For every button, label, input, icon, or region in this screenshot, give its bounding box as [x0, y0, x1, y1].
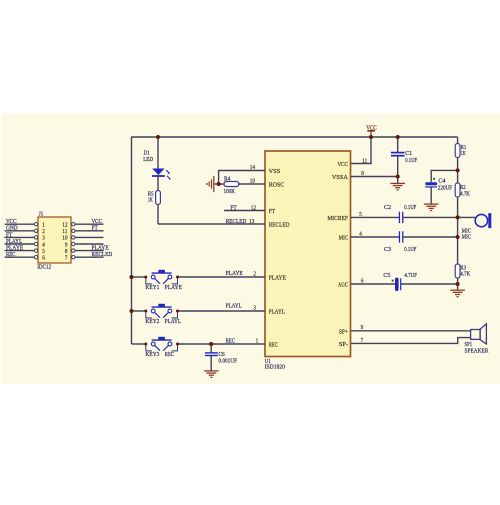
svg-text:1K: 1K [148, 197, 153, 203]
svg-text:R1: R1 [461, 145, 467, 151]
junction VCC on rail [369, 135, 373, 139]
ground under C1 [390, 183, 405, 189]
wire FT stub pin 12 [224, 210, 265, 212]
wire J1 pin 11 right [75, 230, 104, 232]
svg-text:SP-: SP- [339, 341, 348, 348]
svg-text:5: 5 [42, 249, 45, 255]
svg-text:RECLED: RECLED [92, 251, 113, 258]
pushbutton KEY2 [146, 304, 178, 318]
svg-text:12: 12 [62, 223, 67, 229]
wire node to R2 [457, 170, 459, 183]
wire VSS pin 14 to R4 node [219, 171, 265, 185]
svg-text:4: 4 [42, 242, 45, 248]
wire R3 to ground node [457, 278, 459, 290]
svg-text:PLAYE: PLAYE [226, 270, 243, 277]
wire ground to R4 [214, 183, 224, 185]
wire left vertical bus [131, 137, 133, 345]
wire KEY1 to PLAYE pin 2 [178, 276, 266, 278]
wire to KEY3 left [132, 343, 146, 345]
LED D1 [152, 169, 171, 180]
junction bus KEY1 [130, 275, 134, 279]
svg-text:PLAYL: PLAYL [226, 303, 242, 310]
terminal KEY1 right [176, 276, 179, 279]
pin 7 circle [72, 256, 75, 259]
pin 1 circle [34, 223, 37, 226]
svg-text:AGC: AGC [338, 282, 348, 289]
svg-text:MIC: MIC [339, 235, 348, 242]
svg-text:ISD1820: ISD1820 [265, 364, 285, 371]
wire C4 to ground [430, 187, 432, 203]
svg-text:C1: C1 [405, 150, 412, 157]
pin 4 circle [34, 242, 37, 245]
svg-text:PLAYL: PLAYL [165, 318, 181, 325]
svg-text:1: 1 [42, 223, 45, 229]
wire top rail to LED anode [157, 137, 159, 169]
wire LED cathode to R5 [157, 177, 159, 191]
wire J1 pin 6 left [5, 256, 35, 258]
svg-text:ROSC: ROSC [269, 181, 285, 188]
junction C1 on rail [396, 135, 400, 139]
wire J1 pin 3 left [5, 236, 35, 238]
svg-text:LED: LED [143, 156, 153, 163]
speaker SP1 [471, 324, 487, 344]
wire REC row to C6 [210, 344, 212, 352]
wire J1 pin 8 right [75, 250, 104, 252]
wire J1 pin 4 left [5, 243, 35, 245]
svg-text:8: 8 [65, 249, 68, 255]
wire MICREF pin 5 to C2 [351, 216, 400, 218]
svg-text:10: 10 [62, 236, 67, 242]
wire VSSA pin 8 to ground node [351, 176, 398, 178]
wire J1 pin 1 left [5, 223, 35, 225]
wire C5 to ground node [401, 283, 458, 285]
svg-text:4.7UF: 4.7UF [404, 272, 417, 279]
wire RECLED to pin 13 [158, 223, 265, 225]
svg-text:9: 9 [65, 242, 68, 248]
wire rail to R1 [457, 137, 459, 144]
svg-text:MIC: MIC [462, 233, 471, 240]
wire to KEY1 left [132, 276, 146, 278]
svg-text:VCC: VCC [338, 161, 349, 168]
wire J1 pin 2 left [5, 230, 35, 232]
terminal KEY3 right [176, 343, 179, 346]
svg-text:REC: REC [226, 337, 235, 344]
connector J1 IDC12 [38, 217, 71, 263]
pushbutton KEY3 [146, 337, 178, 351]
junction C6 on REC [209, 342, 213, 346]
capacitor C4 electrolytic [425, 178, 437, 187]
pin 6 circle [34, 256, 37, 259]
resistor R1 [455, 144, 460, 158]
svg-text:MICREF: MICREF [327, 215, 348, 222]
svg-text:1K: 1K [461, 151, 466, 157]
pin 10 circle [72, 236, 75, 239]
svg-text:100K: 100K [224, 188, 236, 195]
junction VSSA C1 ground [396, 175, 400, 179]
resistor R5 [156, 191, 161, 205]
svg-text:REC: REC [6, 251, 15, 258]
svg-text:KEY2: KEY2 [145, 318, 159, 325]
capacitor C1 [391, 153, 405, 156]
pushbutton KEY1 [146, 270, 178, 284]
svg-text:REC: REC [269, 341, 278, 348]
svg-text:PLAYE: PLAYE [269, 274, 286, 281]
svg-text:IDC12: IDC12 [37, 264, 51, 271]
svg-text:REC: REC [165, 351, 174, 358]
wire node to C4 [431, 170, 457, 182]
svg-text:SP+: SP+ [339, 328, 348, 335]
capacitor C6 [205, 353, 218, 356]
wire J1 pin 12 right [75, 223, 104, 225]
capacitor C3 [399, 231, 402, 242]
junction AGC R3 ground [456, 282, 460, 286]
pin 3 circle [34, 236, 37, 239]
IC U1 ISD1820 [265, 151, 351, 357]
terminal KEY2 right [176, 310, 179, 313]
resistor R4 [224, 182, 239, 187]
wire VCC top rail [132, 136, 458, 138]
junction bus KEY2 [130, 309, 134, 313]
microphone MIC [475, 213, 491, 228]
wire J1 pin 9 right [75, 243, 104, 245]
svg-text:KEY1: KEY1 [145, 284, 159, 291]
ground under R3 [450, 290, 465, 296]
svg-text:0.001UF: 0.001UF [219, 358, 238, 365]
svg-text:FT: FT [230, 204, 237, 211]
svg-text:PLAYL: PLAYL [269, 308, 285, 315]
pin 9 circle [72, 242, 75, 245]
svg-text:SPEAKER: SPEAKER [465, 348, 489, 355]
wire SP+ pin 9 to speaker [351, 330, 471, 332]
svg-text:RECLED: RECLED [226, 218, 247, 225]
svg-text:VSSA: VSSA [332, 174, 349, 181]
svg-text:KEY3: KEY3 [145, 351, 159, 358]
svg-text:0.1UF: 0.1UF [405, 157, 417, 164]
wire J1 pin 10 right [75, 236, 104, 238]
wire SP- pin 7 to speaker [351, 338, 471, 344]
wire J1 pin 5 left [5, 250, 35, 252]
pin 11 circle [72, 229, 75, 232]
wire KEY2 to PLAYL pin 3 [178, 310, 266, 312]
pin 12 circle [72, 223, 75, 226]
svg-text:FT: FT [269, 208, 276, 215]
power ground at R4 [207, 176, 214, 192]
wire mic node down to R3 [457, 217, 459, 264]
svg-text:PLAYE: PLAYE [165, 284, 182, 291]
wire C1 to ground [397, 156, 399, 183]
terminal KEY2 left [144, 310, 147, 313]
svg-text:C3: C3 [384, 246, 391, 253]
svg-text:J1: J1 [39, 210, 44, 217]
svg-text:0.1UF: 0.1UF [404, 246, 416, 253]
wire R1 to node [457, 158, 459, 171]
capacitor C5 electrolytic [392, 278, 401, 291]
wire KEY3 to REC pin 1 [178, 343, 266, 345]
svg-text:3: 3 [42, 236, 45, 242]
terminal KEY3 left [144, 343, 147, 346]
ground under C4 [424, 204, 439, 210]
capacitor C2 [399, 212, 402, 223]
svg-text:C2: C2 [384, 204, 391, 211]
wire C2 to microphone [403, 216, 476, 218]
resistor R3 [455, 264, 460, 278]
svg-text:R2: R2 [460, 185, 466, 191]
svg-text:4.7K: 4.7K [460, 191, 470, 197]
wire R4 to ROSC pin 10 [239, 183, 265, 185]
svg-text:RECLED: RECLED [269, 221, 290, 228]
svg-text:11: 11 [62, 229, 67, 235]
resistor R2 [455, 183, 460, 197]
svg-text:FT: FT [92, 225, 99, 232]
wire C3 to mic node [403, 236, 458, 238]
wire J1 pin 7 right [75, 256, 104, 258]
power port VCC [367, 131, 375, 137]
junction R1 R2 C4 [456, 168, 460, 172]
wire VCC pin 11 to rail [351, 137, 372, 164]
pin 2 circle [34, 229, 37, 232]
junction MICREF mic node [456, 215, 460, 219]
pin 8 circle [72, 249, 75, 252]
wire R5 to RECLED row [157, 205, 159, 225]
svg-text:VCC: VCC [366, 124, 377, 131]
wire C6 to ground [210, 356, 212, 371]
svg-text:VSS: VSS [269, 168, 281, 175]
ground under C6 [204, 371, 219, 377]
terminal KEY1 left [144, 276, 147, 279]
wire to KEY2 left [132, 310, 146, 312]
junction LED branch on rail [156, 135, 160, 139]
junction MIC C3 node [456, 235, 460, 239]
svg-text:0.1UF: 0.1UF [404, 204, 416, 211]
svg-text:R4: R4 [224, 175, 231, 182]
wire rail to C1 [397, 137, 399, 152]
svg-text:6: 6 [42, 256, 45, 262]
schematic canvas [1, 113, 500, 384]
pin 5 circle [34, 249, 37, 252]
svg-text:7: 7 [65, 256, 68, 262]
wire AGC pin 6 to C5 [351, 283, 396, 285]
wire MIC pin 4 to C3 [351, 236, 400, 238]
wire R2 to MIC node [457, 197, 459, 218]
svg-text:C5: C5 [383, 272, 390, 279]
svg-text:2: 2 [42, 229, 45, 235]
svg-text:4.7K: 4.7K [460, 271, 470, 277]
junction R4 ground VSS [217, 182, 221, 186]
svg-text:220UF: 220UF [438, 184, 453, 191]
